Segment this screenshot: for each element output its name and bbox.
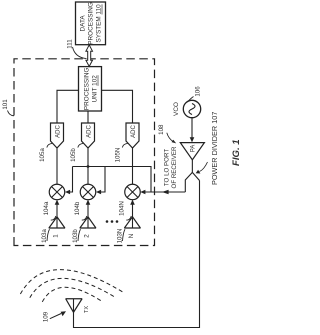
svg-text:101: 101 bbox=[2, 99, 9, 110]
svg-text:FIG. 1: FIG. 1 bbox=[231, 139, 240, 166]
LO bus tee and riser bbox=[73, 167, 152, 193]
label 105N bbox=[115, 143, 128, 162]
antenna N (element 103N) bbox=[124, 205, 140, 229]
TX antenna 109 bbox=[66, 299, 83, 313]
svg-text:ADC: ADC bbox=[55, 125, 61, 138]
svg-text:104a: 104a bbox=[43, 201, 50, 215]
label 108 bbox=[158, 124, 176, 143]
bus arrow 111 (hollow double arrow) bbox=[86, 45, 93, 67]
svg-text:VCO: VCO bbox=[173, 102, 180, 116]
LO line to mixer N (vertical) bbox=[140, 190, 185, 195]
box U102: PROCESSING UNIT 102 bbox=[79, 67, 102, 111]
power divider 107 (Y split) bbox=[185, 160, 199, 192]
wire mixer2 to ADC2 bbox=[87, 148, 89, 184]
wire ADCN to processing unit bbox=[102, 90, 133, 123]
wire ADC1 to processing unit bbox=[57, 90, 79, 123]
svg-text:103N: 103N bbox=[117, 229, 124, 244]
dashed box 101 (receiver boundary) bbox=[14, 59, 155, 246]
svg-text:109: 109 bbox=[43, 311, 50, 322]
svg-text:PA: PA bbox=[191, 145, 197, 153]
ellipsis dots between rows bbox=[106, 220, 119, 223]
label 103b bbox=[72, 229, 81, 243]
svg-text:UNIT 102: UNIT 102 bbox=[92, 75, 99, 103]
mixer M104a (circle with X) bbox=[49, 184, 65, 200]
svg-text:2: 2 bbox=[83, 234, 90, 238]
svg-text:105b: 105b bbox=[70, 148, 77, 162]
label 103N bbox=[117, 229, 126, 244]
svg-text:105a: 105a bbox=[39, 148, 46, 162]
label TO LO PORT OF RECEIVER bbox=[163, 146, 178, 188]
label 105b bbox=[70, 143, 83, 162]
wire ADC2 to processing unit bbox=[87, 111, 89, 123]
label 104b bbox=[74, 201, 87, 220]
svg-text:PROCESSING: PROCESSING bbox=[84, 67, 91, 110]
label 111 bbox=[67, 39, 87, 59]
junction dot on LO bus at row2 bbox=[87, 165, 90, 168]
wire VCO to PA with arrow bbox=[190, 118, 195, 143]
wire mixerN to ADCN bbox=[132, 148, 134, 184]
svg-text:TX: TX bbox=[84, 306, 90, 313]
svg-text:105N: 105N bbox=[115, 148, 122, 163]
label 104a bbox=[43, 201, 56, 220]
label 104N bbox=[118, 201, 131, 220]
antenna 1 (element 103a) bbox=[49, 205, 65, 229]
ADC U105N bbox=[126, 123, 139, 148]
LO branch to mixer 2 bbox=[96, 167, 105, 195]
svg-text:106: 106 bbox=[195, 86, 202, 97]
svg-text:104b: 104b bbox=[74, 201, 81, 215]
label 106 bbox=[188, 86, 201, 101]
svg-text:PROCESSING: PROCESSING bbox=[88, 2, 95, 45]
label 109 with arrow bbox=[43, 311, 67, 322]
svg-text:104N: 104N bbox=[118, 201, 125, 216]
svg-text:108: 108 bbox=[158, 124, 165, 135]
wire arrow antenna2 to mixer2 bbox=[86, 200, 91, 205]
amplifier PA (108) bbox=[180, 143, 204, 160]
svg-text:DATA: DATA bbox=[80, 15, 87, 32]
svg-text:N: N bbox=[128, 234, 135, 238]
svg-text:ADC: ADC bbox=[86, 125, 92, 138]
wire mixer1 to ADC1 bbox=[56, 148, 58, 184]
box U110: DATA PROCESSING SYSTEM 110 bbox=[76, 2, 106, 45]
ADC U105a bbox=[51, 123, 64, 148]
mixer M104b (circle with X) bbox=[80, 184, 96, 200]
flow arrow TO LO PORT bbox=[162, 190, 169, 195]
VCO 106 (circle with sine) bbox=[183, 100, 200, 117]
svg-text:OF RECEIVER: OF RECEIVER bbox=[171, 146, 178, 188]
svg-text:SYSTEM 110: SYSTEM 110 bbox=[96, 4, 103, 43]
antenna 2 (element 103b) bbox=[80, 205, 96, 229]
label 101 bbox=[2, 99, 14, 116]
LO branch to mixer 1 bbox=[65, 167, 73, 195]
label 103a bbox=[41, 229, 50, 243]
TX feed wire from divider to TX antenna bbox=[74, 181, 200, 328]
svg-text:ADC: ADC bbox=[131, 125, 137, 138]
ADC U105b bbox=[82, 123, 95, 148]
wire arrow antennaN to mixerN bbox=[130, 200, 135, 205]
svg-text:1: 1 bbox=[52, 234, 59, 238]
svg-text:POWER DIVIDER 107: POWER DIVIDER 107 bbox=[210, 112, 219, 185]
mixer M104N (circle with X) bbox=[125, 184, 141, 200]
label 105a bbox=[39, 143, 52, 162]
wire arrow antenna1 to mixer1 bbox=[55, 200, 60, 205]
wave arcs from TX antenna bbox=[20, 270, 123, 302]
svg-text:TO LO PORT: TO LO PORT bbox=[163, 149, 170, 186]
label POWER DIVIDER 107 bbox=[196, 112, 219, 185]
